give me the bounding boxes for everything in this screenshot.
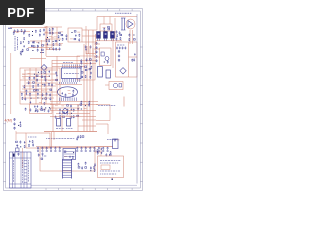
svg-text:4(M): 4(M) [5,119,12,123]
